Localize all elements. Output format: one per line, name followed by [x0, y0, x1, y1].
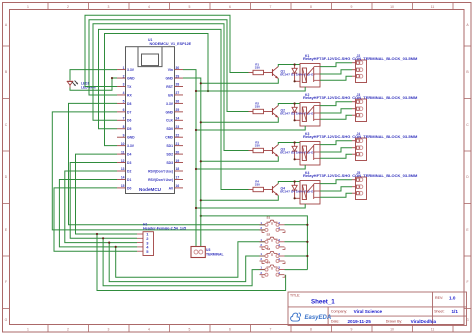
- svg-text:13: 13: [121, 167, 125, 171]
- wire Q1 collector rail: [278, 65, 300, 67]
- junction D4 cathode: [294, 180, 296, 182]
- svg-text:2: 2: [123, 74, 125, 78]
- svg-text:5: 5: [189, 5, 191, 9]
- chip U1 antenna inner: [142, 54, 159, 66]
- wire pin6 D7 to S1 pin2: [52, 112, 264, 230]
- junction D1 cathode: [294, 63, 296, 65]
- title block: [288, 292, 467, 326]
- wire relay K1 coil to Vin bus: [196, 87, 305, 91]
- U1 right pin 24 (CLK): [175, 119, 184, 121]
- relay K1 contacts: [313, 67, 315, 82]
- transistor Q3 BC547: [272, 147, 274, 154]
- svg-text:RelayHFT3F-12VDC-SHG: RelayHFT3F-12VDC-SHG: [303, 95, 350, 100]
- U1 left pin 7 (D6): [117, 119, 126, 121]
- wires relay K4 to terminal: [320, 180, 352, 184]
- svg-text:7: 7: [123, 117, 125, 121]
- svg-text:F: F: [5, 280, 7, 284]
- svg-text:RSV(Don't Use): RSV(Don't Use): [148, 178, 173, 182]
- svg-text:S4: S4: [267, 260, 271, 264]
- svg-text:4: 4: [278, 257, 280, 261]
- svg-text:1/1: 1/1: [452, 309, 459, 314]
- svg-text:3: 3: [123, 83, 125, 87]
- junction Vin bus: [195, 90, 197, 92]
- header H1: [143, 232, 154, 256]
- wire pin 13 to H1 pin 3: [65, 171, 137, 243]
- svg-text:D0: D0: [127, 186, 131, 190]
- svg-text:NODEMCU_V1_ESP12E: NODEMCU_V1_ESP12E: [150, 42, 192, 46]
- U1 left pin 6 (D7): [117, 111, 126, 113]
- U1 right pin 29 (GND): [175, 77, 184, 79]
- svg-text:29: 29: [176, 74, 180, 78]
- wire Q3 emitter GND return: [201, 157, 278, 162]
- svg-text:14: 14: [121, 176, 125, 180]
- svg-text:D8: D8: [127, 102, 131, 106]
- junction H1 branch: [115, 246, 117, 248]
- svg-text:Company:: Company:: [331, 309, 347, 313]
- svg-text:D7: D7: [127, 110, 131, 114]
- U1 right pin 28 (RST): [175, 86, 184, 88]
- svg-text:GND: GND: [127, 76, 135, 80]
- svg-text:8: 8: [310, 5, 312, 9]
- svg-text:11: 11: [431, 5, 435, 9]
- U1 left pin 15 (D0): [117, 187, 126, 189]
- svg-text:10: 10: [121, 142, 125, 146]
- diode D1 1N4007: [294, 65, 296, 69]
- relay K3 contacts: [313, 145, 315, 160]
- svg-text:330: 330: [255, 143, 260, 147]
- svg-text:Vin: Vin: [168, 68, 173, 72]
- svg-text:EN: EN: [168, 93, 173, 97]
- svg-text:3: 3: [278, 252, 280, 256]
- wire S3 pin3 to bus: [285, 255, 308, 257]
- U1 left pin 12 (D3): [117, 162, 126, 164]
- svg-text:SD1: SD1: [166, 144, 173, 148]
- svg-text:6: 6: [229, 5, 231, 9]
- junction LED/GND: [111, 77, 113, 79]
- svg-text:2: 2: [260, 271, 262, 275]
- svg-text:D2: D2: [127, 169, 131, 173]
- svg-text:G: G: [5, 318, 8, 322]
- wires relay K2 to terminal: [320, 102, 352, 106]
- U1 left pin 5 (D8): [117, 102, 126, 104]
- wire LED1 cathode to GND pin2: [70, 78, 117, 90]
- junction switch bus: [306, 224, 308, 226]
- junction GND bus: [200, 160, 202, 162]
- U1 right pin 17 (RSV(Don't Use)): [175, 178, 184, 180]
- relay K4: [300, 181, 320, 205]
- wire relay K2 coil to Vin bus: [196, 126, 305, 130]
- svg-text:BC547: BC547: [280, 150, 290, 154]
- svg-text:4: 4: [148, 5, 150, 9]
- svg-text:Header-Female-2.54_1x5: Header-Female-2.54_1x5: [143, 227, 186, 231]
- U1 left pin 11 (D4): [117, 153, 126, 155]
- svg-text:BC547: BC547: [280, 72, 290, 76]
- wires relay K3 to terminal: [320, 141, 352, 145]
- wire relay K3 coil to Vin bus: [196, 165, 305, 169]
- junction D2 anode: [294, 119, 296, 121]
- svg-text:D: D: [466, 175, 469, 179]
- svg-text:A0: A0: [169, 186, 173, 190]
- U1 right pin 25 (GND): [175, 111, 184, 113]
- svg-text:1: 1: [27, 328, 29, 332]
- svg-text:6: 6: [123, 108, 125, 112]
- svg-text:RelayHFT3F-12VDC-SHG: RelayHFT3F-12VDC-SHG: [303, 56, 350, 61]
- svg-text:GND: GND: [165, 110, 173, 114]
- wire H1 row 3 branch to switch: [109, 243, 265, 282]
- svg-text:BC547: BC547: [280, 111, 290, 115]
- svg-text:EasyEDA: EasyEDA: [305, 315, 332, 321]
- svg-text:Sheet:: Sheet:: [434, 310, 444, 314]
- svg-text:SD3: SD3: [166, 161, 173, 165]
- svg-text:23: 23: [176, 125, 180, 129]
- wire pin 15 to H1 pin 5: [54, 188, 137, 251]
- wire pin1 3.3V to LED1: [70, 70, 117, 81]
- diode D2 1N4007: [294, 104, 296, 108]
- svg-text:11: 11: [121, 150, 125, 154]
- svg-text:9: 9: [351, 5, 353, 9]
- wire GND bus: [183, 78, 201, 246]
- svg-text:1: 1: [27, 5, 29, 9]
- svg-text:19: 19: [176, 159, 180, 163]
- terminal block J4: [356, 138, 367, 161]
- wire Q4 collector rail: [278, 182, 300, 184]
- junction switch bus: [306, 255, 308, 257]
- wire GND bus to switch bus: [201, 216, 308, 270]
- U1 right pin 21 (SD1): [175, 145, 184, 147]
- wire H1 row 2 branch to switch: [103, 238, 265, 285]
- svg-text:6: 6: [229, 328, 231, 332]
- relay K3: [300, 142, 320, 166]
- resistor R4: [249, 189, 254, 191]
- junction D2 cathode: [294, 102, 296, 104]
- junction D3 anode: [294, 158, 296, 160]
- relay K2: [300, 103, 320, 127]
- U1 right pin 26 (3.3V): [175, 102, 184, 104]
- junction Vin bus: [195, 207, 197, 209]
- LED1 emission arrows: [72, 82, 75, 86]
- U1 left pin 4 (RX): [117, 94, 126, 96]
- transistor Q4 BC547: [272, 186, 274, 193]
- svg-text:3.3V: 3.3V: [127, 144, 135, 148]
- svg-text:REV:: REV:: [435, 296, 443, 300]
- svg-text:3.3V: 3.3V: [127, 68, 135, 72]
- wire pin5 D8 to S1 pin1: [69, 103, 265, 224]
- transistor Q1 BC547: [272, 69, 274, 76]
- junction H1 branch: [108, 242, 110, 244]
- svg-text:3.3V: 3.3V: [166, 102, 174, 106]
- wire relay K4 coil to Vin bus: [196, 204, 305, 208]
- junction H1 branch: [102, 237, 104, 239]
- svg-text:4: 4: [123, 91, 125, 95]
- junction D3 cathode: [294, 141, 296, 143]
- svg-text:20: 20: [176, 150, 180, 154]
- svg-text:Viral Science: Viral Science: [354, 309, 383, 314]
- LED D1 (LED1) symbol: [69, 80, 71, 81]
- svg-text:SD0: SD0: [166, 127, 173, 131]
- svg-text:D1: D1: [127, 178, 131, 182]
- svg-text:3: 3: [278, 221, 280, 225]
- wire Q1 emitter GND return: [201, 79, 278, 84]
- svg-text:D: D: [5, 175, 8, 179]
- svg-text:2: 2: [260, 243, 262, 247]
- junction GND bus: [200, 199, 202, 201]
- junction loop5: [207, 90, 209, 92]
- wire pin 11 to H1 pin 1: [76, 154, 138, 234]
- relay K4 contacts: [313, 184, 315, 199]
- svg-text:Sheet_1: Sheet_1: [311, 299, 335, 306]
- svg-text:A: A: [466, 23, 469, 27]
- relay K2 contacts: [313, 106, 315, 121]
- wire S1 pin3 to bus: [285, 224, 308, 226]
- svg-text:D3: D3: [127, 161, 131, 165]
- junction GND bus: [200, 121, 202, 123]
- svg-text:11: 11: [431, 328, 435, 332]
- svg-text:B: B: [5, 70, 8, 74]
- wire pin 12 to H1 pin 2: [70, 163, 137, 239]
- U1 left pin 8 (D5): [117, 128, 126, 130]
- svg-text:330: 330: [255, 65, 260, 69]
- svg-text:8: 8: [310, 328, 312, 332]
- svg-text:CLK: CLK: [166, 119, 174, 123]
- EasyEDA logo: [291, 313, 301, 321]
- diode D3 1N4007: [294, 143, 296, 147]
- diode D4 1N4007: [294, 182, 296, 186]
- svg-text:2: 2: [67, 328, 69, 332]
- terminal block J3: [356, 99, 367, 122]
- svg-text:21: 21: [176, 142, 180, 146]
- svg-text:4: 4: [278, 243, 280, 247]
- frame column ticks and numbers: [47, 3, 49, 10]
- U1 left pin 14 (D1): [117, 178, 126, 180]
- svg-text:16: 16: [176, 184, 180, 188]
- terminal block J5: [356, 177, 367, 200]
- wire S4 pin3 to bus: [285, 269, 308, 271]
- svg-text:C: C: [466, 123, 469, 127]
- svg-text:CON_TERMINAL_BLOCK_03-5MM: CON_TERMINAL_BLOCK_03-5MM: [352, 56, 418, 61]
- wire GPIO pin 4 loop to relay row input: [89, 20, 249, 112]
- svg-text:GND: GND: [127, 136, 135, 140]
- svg-text:3: 3: [108, 328, 110, 332]
- junction GND bus: [200, 82, 202, 84]
- junction Vin bus: [195, 129, 197, 131]
- U1 left pin 9 (GND): [117, 136, 126, 138]
- svg-text:BC547: BC547: [280, 189, 290, 193]
- svg-text:Date:: Date:: [331, 319, 340, 323]
- U1 right pin 22 (CMD): [175, 136, 184, 138]
- svg-text:7: 7: [270, 5, 272, 9]
- svg-text:D4: D4: [127, 153, 131, 157]
- U1 right pin 27 (EN): [175, 94, 184, 96]
- svg-text:CON_TERMINAL_BLOCK_03-5MM: CON_TERMINAL_BLOCK_03-5MM: [352, 173, 418, 178]
- svg-text:30: 30: [176, 66, 180, 70]
- svg-text:S2: S2: [267, 233, 271, 237]
- U1 right pin 19 (SD3): [175, 162, 184, 164]
- svg-text:3: 3: [278, 238, 280, 242]
- svg-text:D6: D6: [127, 119, 131, 123]
- U1 left pin 2 (GND): [117, 77, 126, 79]
- svg-text:SD2: SD2: [166, 153, 173, 157]
- chip U1 antenna outer: [138, 47, 162, 67]
- svg-text:F: F: [466, 280, 468, 284]
- svg-text:E: E: [466, 228, 469, 232]
- relay K1: [300, 64, 320, 88]
- svg-text:1: 1: [260, 221, 262, 225]
- svg-text:5: 5: [146, 249, 149, 254]
- junction Vin bus: [195, 168, 197, 170]
- wire Q3 collector rail: [278, 143, 300, 145]
- svg-text:10: 10: [390, 328, 394, 332]
- svg-text:3: 3: [278, 266, 280, 270]
- svg-text:RSV(Don't Use): RSV(Don't Use): [148, 169, 173, 173]
- svg-text:4: 4: [278, 226, 280, 230]
- chip U1 body: [126, 47, 175, 194]
- U1 right pin 18 (RSV(Don't Use)): [175, 170, 184, 172]
- svg-text:D5: D5: [127, 127, 131, 131]
- junction H1 branch: [96, 233, 98, 235]
- svg-text:25: 25: [176, 108, 180, 112]
- svg-text:RelayHFT3F-12VDC-SHG: RelayHFT3F-12VDC-SHG: [303, 173, 350, 178]
- frame row ticks and letters: [3, 45, 10, 47]
- resistor R3: [249, 150, 254, 152]
- svg-text:7: 7: [270, 328, 272, 332]
- svg-text:12: 12: [121, 159, 125, 163]
- resistor R2: [249, 111, 254, 113]
- svg-text:17: 17: [176, 176, 180, 180]
- svg-text:1.0: 1.0: [449, 296, 456, 301]
- terminal block J2: [356, 60, 367, 83]
- svg-text:RST: RST: [166, 85, 174, 89]
- wire H1 row 4 branch to switch: [116, 242, 265, 277]
- svg-text:5: 5: [189, 328, 191, 332]
- terminal U3: [191, 247, 205, 258]
- transistor Q2 BC547: [272, 108, 274, 115]
- wire GPIO pin 3 loop to relay row input: [85, 15, 249, 86]
- U1 right pin 30 (Vin): [175, 69, 184, 71]
- svg-text:4: 4: [148, 328, 150, 332]
- U1 left pin 1 (3.3V): [117, 69, 126, 71]
- svg-text:28: 28: [176, 83, 180, 87]
- svg-text:4: 4: [278, 271, 280, 275]
- junction switch bus feed: [200, 215, 202, 217]
- U1 right pin 20 (SD2): [175, 153, 184, 155]
- svg-text:E: E: [5, 228, 8, 232]
- junction switch bus: [306, 241, 308, 243]
- svg-text:TITLE:: TITLE:: [290, 293, 300, 297]
- svg-text:9: 9: [123, 133, 125, 137]
- svg-text:26: 26: [176, 100, 180, 104]
- svg-text:2: 2: [260, 257, 262, 261]
- svg-text:15: 15: [121, 184, 125, 188]
- svg-text:CON_TERMINAL_BLOCK_03-5MM: CON_TERMINAL_BLOCK_03-5MM: [352, 134, 418, 139]
- svg-text:9: 9: [351, 328, 353, 332]
- wire Q2 emitter GND return: [201, 118, 278, 123]
- svg-text:C: C: [5, 123, 8, 127]
- svg-text:NodeMCU: NodeMCU: [139, 187, 162, 192]
- wire pin 5 loop to Vin rail: [105, 34, 209, 146]
- svg-text:CON_TERMINAL_BLOCK_03-5MM: CON_TERMINAL_BLOCK_03-5MM: [352, 95, 418, 100]
- svg-text:A: A: [5, 23, 8, 27]
- svg-text:24: 24: [176, 117, 180, 121]
- wire GPIO pin 7 loop to relay row input: [93, 24, 249, 151]
- svg-text:27: 27: [176, 91, 180, 95]
- svg-text:22: 22: [176, 133, 180, 137]
- svg-text:Drawn By:: Drawn By:: [386, 319, 403, 323]
- wire Q2 collector rail: [278, 104, 300, 106]
- U1 left pin 3 (TX): [117, 86, 126, 88]
- svg-text:CMD: CMD: [165, 136, 173, 140]
- U1 right pin 23 (SD0): [175, 128, 184, 130]
- svg-text:RX: RX: [127, 93, 132, 97]
- svg-text:RelayHFT3F-12VDC-SHG: RelayHFT3F-12VDC-SHG: [303, 134, 350, 139]
- svg-text:5: 5: [123, 100, 125, 104]
- svg-text:1: 1: [260, 238, 262, 242]
- svg-text:10: 10: [390, 5, 394, 9]
- wire GPIO pin 8 loop to relay row input: [99, 29, 249, 189]
- svg-text:TX: TX: [127, 85, 132, 89]
- svg-text:ViralDodhia: ViralDodhia: [411, 319, 437, 324]
- svg-text:3: 3: [108, 5, 110, 9]
- U1 left pin 10 (3.3V): [117, 145, 126, 147]
- wire pin 14 to H1 pin 4: [59, 179, 137, 246]
- svg-text:1: 1: [123, 66, 125, 70]
- svg-text:2019-11-25: 2019-11-25: [348, 319, 372, 324]
- wire Vin bus: [183, 70, 196, 247]
- U1 right pin 16 (A0): [175, 187, 184, 189]
- svg-text:S1: S1: [267, 216, 271, 220]
- wire S2 pin3 to bus: [285, 241, 308, 243]
- svg-text:B: B: [466, 70, 469, 74]
- wires relay K1 to terminal: [320, 63, 352, 67]
- svg-text:330: 330: [255, 104, 260, 108]
- svg-text:GND: GND: [165, 76, 173, 80]
- svg-text:8: 8: [123, 125, 125, 129]
- junction D4 anode: [294, 197, 296, 199]
- svg-text:330: 330: [255, 182, 260, 186]
- resistor R1: [249, 72, 254, 74]
- U1 left pin 13 (D2): [117, 170, 126, 172]
- svg-text:TERMINAL: TERMINAL: [206, 252, 224, 256]
- wire H1 row 1 branch to switch: [97, 234, 286, 291]
- svg-text:2: 2: [67, 5, 69, 9]
- svg-text:18: 18: [176, 167, 180, 171]
- junction D1 anode: [294, 80, 296, 82]
- wire Q4 emitter GND return: [201, 196, 278, 201]
- svg-text:S3: S3: [267, 247, 271, 251]
